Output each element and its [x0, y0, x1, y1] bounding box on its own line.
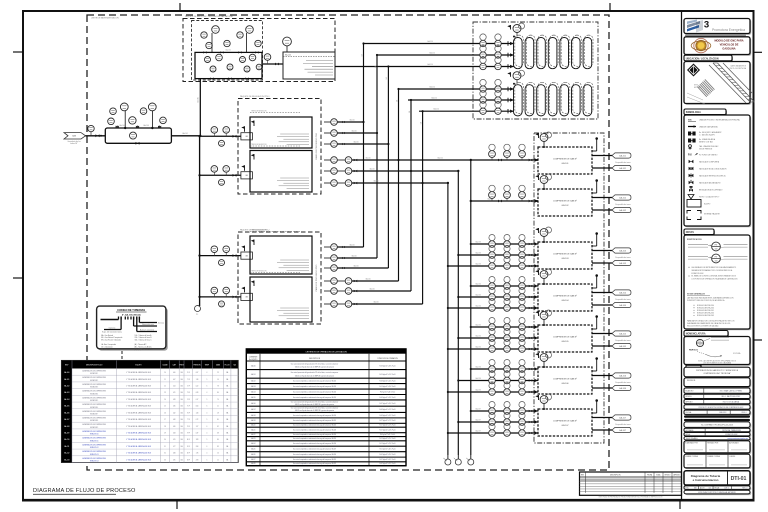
svg-text:29: 29 — [164, 432, 166, 434]
svg-text:0.22: 0.22 — [196, 385, 199, 387]
svg-text:83 F: 83 F — [187, 459, 190, 461]
svg-text:SISTEMA: SISTEMA — [733, 352, 741, 355]
svg-text:DISTRIBUCION DE GASODUCTO Y ES: DISTRIBUCION DE GASODUCTO Y ESTACION DE — [696, 369, 739, 372]
svg-text:PANEL DE PROGRESO PRO: PANEL DE PROGRESO PRO — [315, 264, 318, 291]
svg-text:300: 300 — [180, 372, 182, 374]
svg-text:EST. GNC: EST. GNC — [694, 87, 702, 89]
svg-text:200 - Tuberia de linea B: 200 - Tuberia de linea B — [135, 337, 152, 339]
svg-text:S/E: S/E — [694, 487, 697, 489]
svg-text:456: 456 — [173, 426, 175, 428]
svg-text:21: 21 — [217, 406, 219, 408]
svg-text:GA-110: GA-110 — [429, 86, 435, 89]
svg-text:GB-102: GB-102 — [562, 205, 570, 207]
svg-text:1.27: 1.27 — [196, 426, 199, 428]
svg-text:COMPRESOR DE GAS Nº: COMPRESOR DE GAS Nº — [553, 420, 577, 423]
svg-text:Disponible de toma: Disponible de toma — [615, 203, 630, 206]
svg-text:3: 3 — [704, 20, 709, 31]
svg-text:NOMENCLATURA: NOMENCLATURA — [686, 333, 706, 336]
svg-text:GB-104: GB-104 — [562, 300, 570, 302]
svg-text:NOM-007-SECRE-2010: NOM-007-SECRE-2010 — [697, 313, 714, 315]
svg-text:ION DE PRESION: ION DE PRESION — [699, 149, 713, 151]
svg-text:23: 23 — [164, 392, 166, 394]
svg-text:P.V. PUNTO DE VENTEO: P.V. PUNTO DE VENTEO — [699, 154, 718, 156]
svg-text:16: 16 — [217, 453, 219, 455]
svg-text:84: 84 — [217, 392, 219, 394]
svg-text:300: 300 — [180, 379, 182, 381]
svg-text:463: 463 — [173, 432, 175, 434]
svg-text:P=62 kg/cm2 T=32 C F=4.0: P=62 kg/cm2 T=32 C F=4.0 — [380, 463, 396, 465]
svg-text:0.37: 0.37 — [196, 432, 199, 434]
svg-text:REVISO:: REVISO: — [686, 396, 693, 398]
svg-text:GN - Gas Recien Odorizado: GN - Gas Recien Odorizado — [101, 340, 121, 342]
svg-text:GA-110: GA-110 — [433, 108, 439, 111]
svg-text:300 - Tuberia de linea C: 300 - Tuberia de linea C — [135, 340, 153, 342]
svg-text:421: 421 — [173, 392, 175, 394]
svg-text:VEHICULOS DE: VEHICULOS DE — [720, 44, 739, 47]
svg-text:PAQUETE DE REGULACION PRV-1: PAQUETE DE REGULACION PRV-1 — [240, 95, 270, 98]
svg-text:27: 27 — [164, 419, 166, 421]
svg-text:1.76: 1.76 — [196, 453, 199, 455]
svg-text:GA-156: GA-156 — [619, 374, 627, 377]
svg-text:GA-163: GA-163 — [619, 262, 627, 265]
svg-text:Disponible de toma: Disponible de toma — [615, 381, 630, 384]
svg-text:DESCRIPCION FLUJO: DESCRIPCION FLUJO — [86, 365, 103, 367]
svg-text:SIMBOLOGIA: SIMBOLOGIA — [686, 111, 701, 114]
svg-text:GB-106: GB-106 — [562, 383, 570, 385]
svg-text:414: 414 — [173, 385, 175, 387]
svg-text:300: 300 — [180, 406, 182, 408]
svg-text:P=16 kg/cm2 T=39 C F=4.0: P=16 kg/cm2 T=39 C F=4.0 — [380, 386, 396, 388]
svg-text:EA-100: EA-100 — [285, 53, 291, 56]
svg-text:Servicio: Servicio — [158, 321, 164, 324]
svg-text:REVISION:: REVISION: — [687, 380, 696, 382]
svg-text:Indios 36": Indios 36" — [70, 143, 78, 145]
svg-text:Disponible de toma: Disponible de toma — [615, 161, 630, 164]
svg-text:31: 31 — [164, 446, 166, 448]
svg-text:TREN DE MEDICION: TREN DE MEDICION — [251, 230, 267, 232]
svg-text:25: 25 — [164, 406, 166, 408]
svg-text:GA-110: GA-110 — [431, 97, 437, 100]
svg-text:30: 30 — [164, 439, 166, 441]
svg-text:435: 435 — [173, 406, 175, 408]
svg-text:79 F: 79 F — [187, 432, 190, 434]
svg-text:300: 300 — [180, 385, 182, 387]
svg-text:TREN DE MEDICION: TREN DE MEDICION — [251, 271, 267, 273]
svg-text:NOM-002-SECRE-2010: NOM-002-SECRE-2010 — [697, 307, 714, 309]
svg-text:No. CONTRATO: PE-GNC-EPC-001-2: No. CONTRATO: PE-GNC-EPC-001-2013 — [701, 423, 733, 426]
svg-text:GB-105: GB-105 — [562, 341, 570, 343]
svg-text:38: 38 — [217, 432, 219, 434]
svg-text:DTI-01: DTI-01 — [731, 476, 747, 482]
svg-text:NOM-003-SECRE-2011: NOM-003-SECRE-2011 — [697, 310, 714, 312]
svg-text:300: 300 — [180, 412, 182, 414]
svg-text:15: 15 — [217, 459, 219, 461]
svg-text:442: 442 — [173, 412, 175, 414]
svg-text:P=57 kg/cm2 T=42 C F=4.0: P=57 kg/cm2 T=42 C F=4.0 — [380, 459, 396, 461]
svg-text:GB-101 con flujo de diseno de: GB-101 con flujo de diseno de 4.0 MMPCSD… — [295, 410, 334, 412]
svg-text:GA-157: GA-157 — [619, 416, 627, 419]
svg-text:1.18: 1.18 — [196, 379, 199, 381]
svg-text:P=57 kg/cm2 T=43 C F=4.0: P=57 kg/cm2 T=43 C F=4.0 — [380, 430, 396, 432]
svg-text:NOTAS GENERALES: NOTAS GENERALES — [687, 293, 706, 296]
svg-text:GA-167: GA-167 — [619, 429, 627, 432]
svg-text:REV. 0: REV. 0 — [742, 412, 747, 414]
svg-text:80 F: 80 F — [187, 439, 190, 441]
svg-text:PART-01: PART-01 — [689, 349, 699, 352]
svg-text:80: 80 — [217, 419, 219, 421]
svg-text:100: 100 — [699, 345, 702, 347]
svg-text:DIAGRAMA DE FLUJO DE PROCESO: DIAGRAMA DE FLUJO DE PROCESO — [33, 488, 136, 494]
svg-text:FLUJO: FLUJO — [225, 365, 231, 367]
svg-text:81 F: 81 F — [187, 446, 190, 448]
svg-text:GA-110: GA-110 — [427, 40, 433, 43]
svg-text:82: 82 — [217, 426, 219, 428]
svg-text:300: 300 — [180, 432, 182, 434]
svg-text:2.84: 2.84 — [196, 446, 199, 448]
svg-text:GA-164: GA-164 — [619, 304, 627, 307]
svg-text:GB-103: GB-103 — [562, 258, 570, 260]
svg-text:COMPRESION GNC "REYNOSA": COMPRESION GNC "REYNOSA" — [703, 372, 731, 375]
svg-text:COMPRESOR DE GAS Nº: COMPRESOR DE GAS Nº — [553, 158, 577, 161]
svg-text:400: 400 — [173, 372, 175, 374]
svg-text:Disponible de toma: Disponible de toma — [615, 298, 630, 301]
svg-text:300: 300 — [180, 399, 182, 401]
svg-text:82 F: 82 F — [187, 453, 190, 455]
svg-text:No. EQUIPO: No. EQUIPO — [249, 359, 258, 361]
svg-text:20: 20 — [164, 372, 166, 374]
svg-text:73 F: 73 F — [187, 392, 190, 394]
svg-text:28: 28 — [164, 426, 166, 428]
svg-text:Disponible de toma: Disponible de toma — [615, 256, 630, 259]
svg-text:P=9 kg/cm2 T=41 C F=4.0: P=9 kg/cm2 T=41 C F=4.0 — [380, 434, 396, 436]
svg-text:300: 300 — [180, 459, 182, 461]
svg-text:COMPRESOR DE GAS Nº: COMPRESOR DE GAS Nº — [553, 253, 577, 256]
svg-text:77 F: 77 F — [187, 419, 190, 421]
svg-text:GA-100: GA-100 — [119, 124, 125, 127]
svg-text:GA-110: GA-110 — [427, 63, 433, 66]
svg-text:0.97: 0.97 — [196, 372, 199, 374]
svg-text:P=68 kg/cm2 T=32 C F=4.0: P=68 kg/cm2 T=32 C F=4.0 — [380, 415, 396, 417]
svg-text:GA-155: GA-155 — [619, 332, 627, 335]
svg-text:P.V.: P.V. — [688, 154, 692, 157]
svg-text:REVISO: REVISO — [665, 475, 672, 477]
svg-text:P=24 kg/cm2 T=31 C F=4.0: P=24 kg/cm2 T=31 C F=4.0 — [380, 374, 396, 376]
svg-text:0.64: 0.64 — [196, 406, 199, 408]
svg-text:P=68 kg/cm2 T=37 C F=4.0: P=68 kg/cm2 T=37 C F=4.0 — [380, 409, 396, 411]
svg-text:COMPRESOR DE GAS Nº: COMPRESOR DE GAS Nº — [553, 336, 577, 339]
svg-text:PRESION: PRESION — [193, 365, 201, 367]
svg-text:Disponible de toma: Disponible de toma — [615, 423, 630, 426]
svg-text:P=13 kg/cm2 T=29 C F=4.0: P=13 kg/cm2 T=29 C F=4.0 — [380, 443, 396, 445]
svg-text:407: 407 — [173, 379, 175, 381]
svg-text:UBICACION / LOCALIZACION: UBICACION / LOCALIZACION — [686, 57, 719, 60]
svg-text:DESCRIPCION: DESCRIPCION — [309, 358, 321, 360]
svg-text:74 F: 74 F — [187, 399, 190, 401]
svg-text:484: 484 — [173, 453, 175, 455]
svg-text:74: 74 — [217, 399, 219, 401]
svg-text:84: 84 — [217, 439, 219, 441]
svg-text:P=68 kg/cm2 T=40 C F=4.0: P=68 kg/cm2 T=40 C F=4.0 — [380, 381, 396, 383]
svg-text:477: 477 — [173, 446, 175, 448]
svg-text:Disponible de toma: Disponible de toma — [615, 339, 630, 342]
svg-text:GB-101 con flujo de diseno de: GB-101 con flujo de diseno de 4.0 MMPCSD… — [295, 375, 334, 377]
svg-text:18: 18 — [217, 412, 219, 414]
svg-text:EQUIPO: EQUIPO — [704, 203, 711, 205]
svg-text:PANEL DE PROGRESO PRO: PANEL DE PROGRESO PRO — [315, 132, 318, 159]
svg-text:PRES: PRES — [179, 365, 183, 367]
svg-text:0.72: 0.72 — [196, 419, 199, 421]
svg-text:GA-153: GA-153 — [619, 249, 627, 252]
svg-text:83: 83 — [217, 446, 219, 448]
svg-text:GA-100: GA-100 — [143, 124, 149, 127]
svg-text:GB-107: GB-107 — [562, 425, 570, 427]
svg-text:76 F: 76 F — [187, 412, 190, 414]
svg-text:P=27 kg/cm2 T=47 C F=4.0: P=27 kg/cm2 T=47 C F=4.0 — [380, 425, 396, 427]
svg-text:78: 78 — [217, 385, 219, 387]
svg-text:IDENTIFICACION: IDENTIFICACION — [687, 238, 702, 241]
svg-text:16: 16 — [217, 379, 219, 381]
svg-text:70 F: 70 F — [187, 372, 190, 374]
svg-text:300: 300 — [180, 453, 182, 455]
svg-text:GASOLINA: GASOLINA — [722, 48, 735, 51]
svg-text:0.17: 0.17 — [196, 399, 199, 401]
svg-text:1.30: 1.30 — [196, 412, 199, 414]
svg-text:300: 300 — [180, 392, 182, 394]
svg-text:COMPRESOR DE GAS Nº: COMPRESOR DE GAS Nº — [553, 295, 577, 298]
svg-text:GB-101: GB-101 — [562, 163, 570, 165]
svg-text:0.28: 0.28 — [196, 392, 199, 394]
svg-text:29: 29 — [217, 372, 219, 374]
svg-text:449: 449 — [173, 419, 175, 421]
svg-text:CRITERIOS DE OPERACION DE LA E: CRITERIOS DE OPERACION DE LA ESTACION — [306, 350, 348, 353]
svg-text:NOTAS: NOTAS — [686, 231, 694, 234]
svg-text:71 F: 71 F — [187, 379, 190, 381]
svg-text:2.93: 2.93 — [196, 459, 199, 461]
svg-text:DESCRIPCION: DESCRIPCION — [610, 475, 620, 477]
svg-text:P=37 kg/cm2 T=26 C F=4.0: P=37 kg/cm2 T=26 C F=4.0 — [380, 403, 396, 405]
svg-text:P=68 kg/cm2 T=28 C F=4.0: P=68 kg/cm2 T=28 C F=4.0 — [380, 397, 396, 399]
svg-text:e Instrumentacion: e Instrumentacion — [693, 478, 719, 482]
svg-text:300: 300 — [180, 419, 182, 421]
svg-text:P=42 kg/cm2 T=35 C F=4.0: P=42 kg/cm2 T=35 C F=4.0 — [380, 454, 396, 456]
svg-text:470: 470 — [173, 439, 175, 441]
svg-text:GB-101 con flujo de diseno de: GB-101 con flujo de diseno de 4.0 MMPCSD… — [295, 367, 334, 369]
svg-text:TEMP: TEMP — [205, 365, 209, 367]
svg-text:428: 428 — [173, 399, 175, 401]
svg-text:100: 100 — [715, 260, 718, 262]
svg-text:P=27 kg/cm2 T=27 C F=4.0: P=27 kg/cm2 T=27 C F=4.0 — [380, 420, 396, 422]
svg-text:GA-101: GA-101 — [182, 132, 188, 135]
svg-text:GA-161: GA-161 — [619, 167, 627, 170]
svg-text:SIM.: SIM. — [688, 120, 692, 122]
svg-text:491: 491 — [173, 459, 175, 461]
svg-text:ESC:: ESC: — [686, 487, 690, 489]
svg-text:24: 24 — [164, 399, 166, 401]
svg-text:MODULO DE GNC PARA: MODULO DE GNC PARA — [714, 40, 743, 43]
svg-text:300: 300 — [180, 439, 182, 441]
svg-text:LIMITE DE BATERIA ESTACION: LIMITE DE BATERIA ESTACION — [91, 17, 119, 20]
svg-text:22: 22 — [164, 385, 166, 387]
svg-text:P=11 kg/cm2 T=46 C F=4.0: P=11 kg/cm2 T=46 C F=4.0 — [380, 449, 396, 451]
svg-text:21: 21 — [164, 379, 166, 381]
svg-text:P=38 kg/cm2 T=38 C F=4.0: P=38 kg/cm2 T=38 C F=4.0 — [380, 365, 396, 367]
svg-text:33: 33 — [164, 459, 166, 461]
svg-text:GB-101 con flujo de diseno de: GB-101 con flujo de diseno de 4.0 MMPCSD… — [295, 404, 334, 406]
svg-text:GA-166: GA-166 — [619, 387, 627, 390]
svg-text:P=16 kg/cm2 T=25 C F=4.0: P=16 kg/cm2 T=25 C F=4.0 — [380, 438, 396, 440]
svg-text:NOM-010-SECRE-2002: NOM-010-SECRE-2002 — [697, 315, 714, 317]
svg-text:26: 26 — [164, 412, 166, 414]
svg-text:GA-152: GA-152 — [619, 196, 627, 199]
svg-text:CORRIENTE: CORRIENTE — [249, 357, 258, 359]
svg-text:1.89: 1.89 — [196, 439, 199, 441]
svg-text:COMPRESOR DE GAS Nº: COMPRESOR DE GAS Nº — [553, 378, 577, 381]
svg-text:72 F: 72 F — [187, 385, 190, 387]
svg-text:COMPRESOR DE GAS Nº: COMPRESOR DE GAS Nº — [553, 200, 577, 203]
svg-text:TREN DE MEDICION: TREN DE MEDICION — [251, 111, 267, 113]
svg-text:PIT: PIT — [699, 341, 702, 343]
svg-text:75 F: 75 F — [187, 406, 190, 408]
svg-text:GA-110: GA-110 — [429, 52, 435, 55]
svg-text:NOM-001-SECRE-2010: NOM-001-SECRE-2010 — [697, 305, 714, 307]
svg-text:Promotora Energetica: Promotora Energetica — [712, 28, 745, 32]
svg-text:P=9 kg/cm2 T=46 C F=4.0: P=9 kg/cm2 T=46 C F=4.0 — [380, 391, 396, 393]
svg-text:JUN-2013: JUN-2013 — [719, 412, 726, 414]
svg-text:78 F: 78 F — [187, 426, 190, 428]
svg-text:PAQUETE DE MEDICION Y REGULACI: PAQUETE DE MEDICION Y REGULACION GAS NAT… — [185, 15, 233, 18]
svg-text:300: 300 — [180, 426, 182, 428]
svg-text:32: 32 — [164, 453, 166, 455]
svg-text:REV. 0: REV. 0 — [742, 487, 747, 489]
svg-text:100: 100 — [715, 248, 718, 250]
svg-text:4''-GA-100-300 (A): 4''-GA-100-300 (A) — [122, 314, 141, 317]
svg-text:GA-162: GA-162 — [619, 209, 627, 212]
svg-text:CODIGO DE TUBERIAS: CODIGO DE TUBERIAS — [117, 309, 145, 312]
svg-text:CLIENTE: CLIENTE — [729, 456, 735, 458]
svg-text:TREN DE MEDICION: TREN DE MEDICION — [251, 144, 267, 146]
svg-text:300: 300 — [180, 446, 182, 448]
svg-text:GA-165: GA-165 — [619, 345, 627, 348]
svg-text:1 DE 1: 1 DE 1 — [724, 487, 729, 489]
svg-text:Numero de serie: Numero de serie — [142, 324, 154, 326]
svg-text:REV: REV — [581, 475, 584, 477]
svg-text:GA-154: GA-154 — [619, 291, 627, 294]
svg-text:EQUIPO: EQUIPO — [135, 365, 142, 367]
svg-text:GA-151: GA-151 — [619, 154, 627, 157]
